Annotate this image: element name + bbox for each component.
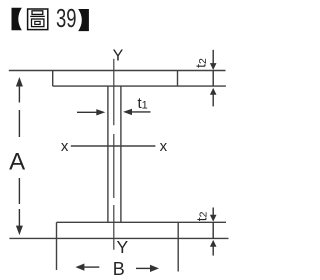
svg-text:Y: Y — [113, 48, 124, 65]
wire bottom flange left edge + B extension — [56, 222, 58, 270]
svg-text:Y: Y — [116, 237, 128, 257]
caption character 圖 — [28, 9, 48, 30]
wire web left line — [107, 86, 109, 222]
svg-text:x: x — [160, 138, 168, 155]
caption bracket 】 — [78, 9, 89, 31]
caption bracket 【 — [12, 8, 22, 31]
wire bottom line of top flange + right extension — [53, 85, 226, 87]
dimension t2 (bottom flange) — [210, 208, 217, 256]
wire x-x axis line — [71, 145, 156, 147]
wire bottom flange right edge + B extension — [177, 222, 179, 271]
wire web right line — [120, 86, 122, 222]
dimension B arrows — [75, 264, 159, 273]
wire bottom line of bottom flange with both extensions — [9, 237, 228, 239]
svg-text:39: 39 — [56, 3, 77, 33]
wire top extension line (top of top flange) — [9, 70, 226, 72]
node Y centerline (dashed vertical axis) — [113, 59, 115, 250]
dimension A line with arrows — [16, 77, 23, 235]
svg-text:B: B — [113, 259, 125, 279]
svg-text:x: x — [61, 138, 69, 155]
wire top line of bottom flange + right extension — [57, 221, 227, 223]
wire top flange left edge — [52, 71, 54, 87]
svg-text:A: A — [9, 149, 25, 176]
dimension t1 arrows at web — [77, 109, 151, 116]
dimension t2 (top flange) — [210, 50, 217, 107]
wire top flange right edge — [177, 71, 179, 87]
